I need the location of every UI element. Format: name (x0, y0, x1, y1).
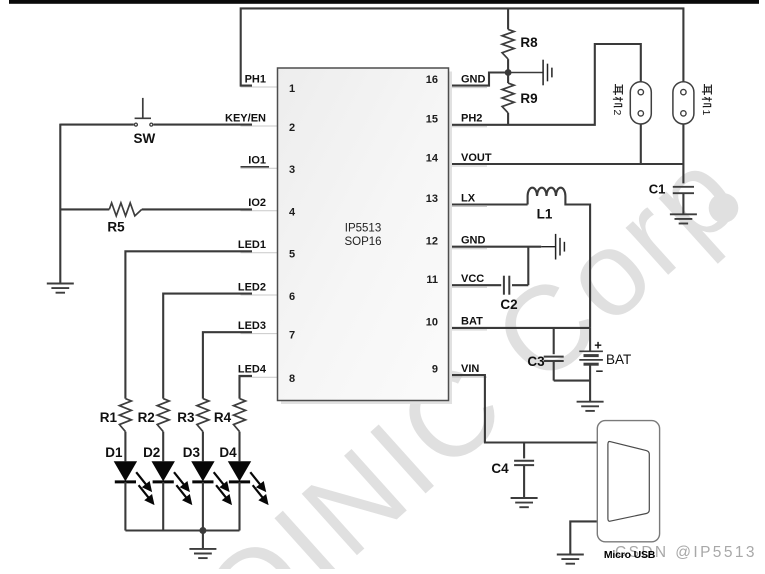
svg-text:LED4: LED4 (238, 364, 267, 376)
svg-text:16: 16 (426, 74, 438, 86)
svg-text:1: 1 (700, 110, 712, 116)
svg-text:R3: R3 (177, 410, 195, 425)
svg-text:8: 8 (289, 373, 295, 385)
svg-text:5: 5 (289, 249, 295, 261)
svg-text:C2: C2 (500, 297, 517, 312)
svg-text:3: 3 (289, 164, 295, 176)
svg-text:C4: C4 (491, 461, 509, 476)
svg-text:SW: SW (134, 131, 156, 146)
svg-text:VCC: VCC (461, 273, 484, 285)
svg-text:7: 7 (289, 330, 295, 342)
svg-text:+: + (594, 338, 602, 353)
svg-text:R1: R1 (100, 410, 118, 425)
svg-text:LED1: LED1 (238, 239, 266, 251)
svg-text:R8: R8 (520, 35, 538, 50)
svg-text:R2: R2 (138, 410, 155, 425)
svg-text:15: 15 (426, 113, 438, 125)
svg-text:L1: L1 (537, 206, 553, 221)
svg-text:LED2: LED2 (238, 281, 266, 293)
svg-text:C3: C3 (527, 354, 545, 369)
svg-text:IP5513: IP5513 (345, 223, 381, 235)
svg-text:GND: GND (461, 235, 486, 247)
svg-text:IO1: IO1 (248, 155, 266, 167)
svg-text:C1: C1 (649, 182, 666, 197)
svg-text:4: 4 (289, 207, 296, 219)
svg-text:BAT: BAT (461, 316, 483, 328)
svg-text:14: 14 (426, 153, 439, 165)
svg-text:D1: D1 (105, 445, 123, 460)
svg-text:PH1: PH1 (245, 73, 266, 85)
svg-text:GND: GND (461, 73, 486, 85)
svg-text:6: 6 (289, 291, 295, 303)
svg-text:1: 1 (289, 83, 295, 95)
svg-text:BAT: BAT (606, 352, 631, 367)
svg-text:LED3: LED3 (238, 320, 266, 332)
svg-text:D2: D2 (143, 445, 160, 460)
svg-text:KEY/EN: KEY/EN (225, 112, 266, 124)
svg-text:−: − (596, 364, 604, 379)
svg-text:13: 13 (426, 193, 438, 205)
svg-text:9: 9 (432, 364, 438, 376)
svg-text:D3: D3 (183, 445, 201, 460)
svg-text:10: 10 (426, 317, 438, 329)
svg-text:VIN: VIN (461, 363, 479, 375)
svg-text:IO2: IO2 (248, 197, 266, 209)
svg-text:2: 2 (611, 110, 623, 116)
svg-text:12: 12 (426, 235, 438, 247)
svg-text:R5: R5 (107, 220, 125, 235)
svg-text:D4: D4 (219, 445, 237, 460)
svg-text:PH2: PH2 (461, 113, 482, 125)
svg-text:R4: R4 (214, 410, 232, 425)
svg-text:11: 11 (426, 274, 438, 286)
svg-text:SOP16: SOP16 (344, 236, 381, 248)
svg-text:2: 2 (289, 122, 295, 134)
svg-text:Micro USB: Micro USB (604, 549, 656, 561)
svg-text:VOUT: VOUT (461, 152, 492, 164)
svg-text:LX: LX (461, 192, 476, 204)
svg-text:R9: R9 (520, 91, 537, 106)
